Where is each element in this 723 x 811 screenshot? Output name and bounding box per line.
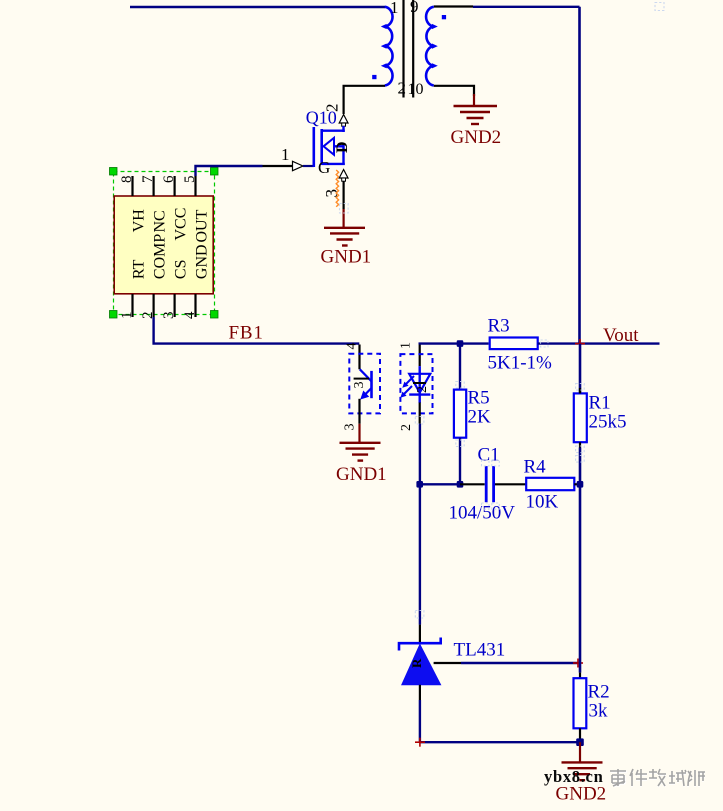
transformer T1 core [404,0,414,98]
junction dot R4 rail [577,481,584,488]
IC selection handle top-right [211,168,219,176]
watermark ybx8.cn [544,767,603,786]
transformer pin number 10 [408,81,424,98]
svg-text:R5: R5 [468,388,490,409]
junction dot bottom rail [576,738,584,746]
wire R3 to rail [538,342,579,344]
resistor R4 designator [524,457,547,478]
Q10 pin number 2 [323,104,342,113]
svg-text:G: G [318,158,330,177]
watermark chinese characters [611,770,705,787]
wire top primary rail [130,6,385,8]
capacitor C1 [486,466,493,502]
IC pin name VH [131,209,148,233]
svg-text:3: 3 [161,312,177,320]
ground GND2 bottom symbol [562,762,603,780]
transformer pin number 2 [398,79,407,98]
svg-text:9: 9 [410,0,419,16]
resistor R3 value 5K1-1% [488,353,553,374]
transistor Q10 designator [306,108,337,128]
IC selection handle top-left [110,168,118,176]
IC pin 5 line [194,176,196,196]
IC pin name OUT [194,209,211,242]
svg-text:VCC: VCC [173,208,190,241]
optocoupler U3A pin number 4 [345,343,360,350]
Q10 pin number 3 [322,189,341,198]
svg-text:OUT: OUT [194,209,211,242]
optocoupler U3A pin 4 line [358,345,360,370]
svg-text:R4: R4 [524,457,547,478]
wire bottom return [420,741,580,743]
wire TL431 reference to rail [434,662,579,664]
IC pin number 3 [161,312,177,320]
capacitor C1 designator [478,445,500,466]
optocoupler U3B pin 1 line [419,345,421,367]
svg-text:2: 2 [323,104,342,113]
wire primary bottom to Q10 drain [344,86,385,114]
wire secondary top to right rail [434,5,580,8]
net label FB1 [229,323,264,344]
IC pin number 8 [119,176,135,184]
svg-text:2: 2 [415,386,430,393]
IC pin number 7 [140,175,156,183]
optocoupler U3B light arrow 1 [402,376,414,388]
IC pin number 1 [119,312,135,320]
wire LED pin2 down to TL431 [419,424,421,644]
transistor Q10 body [314,126,345,167]
wire Q10 source to GND1 [343,181,345,227]
optocoupler U3B inner pin stub and number [413,383,430,393]
optocoupler U3A pin number 3 [343,424,358,431]
junction dot R5 bottom [457,481,464,488]
optocoupler U3B pin number 1 [399,342,414,349]
svg-text:GND: GND [194,244,211,279]
svg-text:TL431: TL431 [454,640,506,661]
optocoupler U3A pin 3 line [358,399,360,424]
diode TL431 cathode bar [399,638,441,651]
svg-text:4: 4 [182,311,198,319]
IC pin name GND [194,244,211,279]
optocoupler U3B pin number 2 [399,424,414,431]
junction dot LED column at comp wire [416,481,423,488]
IC pin 1 line [131,294,133,317]
resistor R1 value 25k5 [589,412,627,433]
Q10 drain pin arrow [339,115,348,127]
wire C1 to R4 [495,483,526,485]
wire opto emitter to GND1 [358,424,360,442]
net label 1 on gate wire [281,145,290,164]
optocoupler U3B dashed box [400,354,432,413]
svg-text:D: D [334,141,351,153]
svg-text:R2: R2 [588,682,610,703]
IC pin name CS [173,260,190,280]
resistor R2 designator [588,682,610,703]
svg-text:5K1-1%: 5K1-1% [488,353,553,374]
Q10 pin name D [334,141,351,153]
wire junction down to R5 [459,344,461,390]
svg-text:5: 5 [182,176,198,184]
wire rail Vout to R1 top [579,344,582,394]
wire R2 bottom to junction [579,728,581,742]
IC pin number 6 [161,175,177,183]
wire R5 junction to C1 [460,483,485,485]
svg-text:10K: 10K [526,492,559,513]
IC U1 body [114,196,213,294]
transformer T1 secondary winding [426,7,438,86]
ERC red cross at Vout junction [575,339,585,348]
Q10 pin name G [318,158,330,177]
svg-text:104/50V: 104/50V [449,503,516,524]
svg-text:GND1: GND1 [336,464,387,485]
wire rail R4 junction down to R2 [579,484,582,678]
svg-text:R: R [409,658,424,668]
wire IC pin5 to gate [196,166,293,176]
svg-text:3: 3 [352,382,367,389]
optocoupler U3B light arrow 2 [400,386,412,398]
transformer T1 primary polarity dot [372,75,376,79]
resistor R3 designator [488,316,510,337]
IC pin 6 line [174,176,176,196]
optocoupler U3B LED [409,366,430,403]
resistor R1 designator [589,393,611,414]
IC pin name COMP [152,234,169,279]
resistor R3 [490,338,538,350]
optocoupler U3B pin 2 line [419,403,421,424]
svg-text:6: 6 [161,175,177,183]
ground GND1 label under optocoupler [336,464,387,485]
IC pin name VCC [173,208,190,241]
diode TL431 triangle [402,645,441,685]
TL431 inner mark [409,658,424,668]
IC pin number 2 [140,312,156,320]
IC pin name RT [131,259,148,279]
wire LED pin1 to R3 junction [420,342,489,345]
transformer T1 primary winding [381,7,393,86]
Q10 source pin arrow [339,170,348,182]
wire TL431 anode down [419,685,421,742]
svg-text:CS: CS [173,260,190,280]
IC pin 8 line [131,176,133,196]
svg-text:GND2: GND2 [556,784,607,805]
svg-text:10: 10 [408,81,424,98]
IC pin name NC [152,210,169,232]
svg-text:8: 8 [119,176,135,184]
wire R5 bottom to junction [459,438,461,485]
resistor R1 [574,393,587,442]
wire FB1 from IC pin2 [154,317,360,344]
svg-text:FB1: FB1 [229,323,264,344]
net label Vout [603,325,639,346]
svg-text:R1: R1 [589,393,611,414]
svg-text:3k: 3k [589,701,609,722]
IC selection dashed box [114,172,215,315]
ground GND1 label under Q10 [321,247,372,268]
junction dot FB node [457,340,464,347]
ground GND2 top label [451,127,502,148]
resistor R5 [454,390,466,438]
wire Vout stub [581,342,660,344]
ground GND2 top symbol [454,94,498,124]
TL431 designator label [454,640,506,661]
wire R4 to rail junction [574,483,580,485]
svg-text:1: 1 [119,312,135,320]
svg-text:1: 1 [281,145,290,164]
transformer T1 secondary polarity dot [442,15,446,19]
svg-text:7: 7 [140,175,156,183]
ERC red cross at TL431 anode corner [415,738,425,747]
svg-text:2: 2 [398,79,407,98]
svg-text:GND2: GND2 [451,127,502,148]
wire secondary bottom to GND2 [434,86,474,96]
capacitor C1 value 104/50V [449,503,516,524]
IC pin 7 line [153,176,155,196]
resistor R4 [526,478,574,490]
svg-text:Vout: Vout [603,325,639,346]
svg-text:VH: VH [131,209,148,233]
transformer pin number 1 [390,0,399,17]
IC pin 2 line [153,294,155,317]
svg-text:4: 4 [345,343,360,350]
optocoupler U3A dashed box [349,354,380,414]
node right rail top corner [578,7,581,343]
svg-text:2: 2 [399,424,414,431]
ground GND2 bottom label [556,784,607,805]
svg-text:3: 3 [343,424,358,431]
ERC marker zigzag at Q10 source [336,170,338,207]
wire R1 bottom to R4 junction [579,442,581,484]
optocoupler U3A phototransistor [360,369,372,399]
ERC red cross at TL431 ref rail [573,659,583,668]
svg-text:1: 1 [390,0,399,17]
wire LED column to R5 junction [420,483,460,485]
resistor R5 designator [468,388,490,409]
IC pin 3 line [174,294,176,317]
svg-text:25k5: 25k5 [589,412,627,433]
resistor R5 value 2K [468,407,492,428]
transformer pin number 9 [410,0,419,16]
resistor R4 value 10K [526,492,559,513]
IC pin number 5 [182,176,198,184]
faint grid markers at pin ends [340,3,665,619]
IC pin number 4 [182,311,198,319]
svg-text:2K: 2K [468,407,492,428]
gate wire arrow [293,161,304,170]
svg-text:R3: R3 [488,316,510,337]
wire gate arrow to Q10 [303,165,314,167]
IC pin 4 line [194,294,196,317]
resistor R2 value 3k [589,701,609,722]
svg-text:1: 1 [399,342,414,349]
svg-text:COMP: COMP [152,234,169,279]
IC selection handle bottom-right [211,311,219,319]
wire junction to GND2 [579,742,581,762]
svg-text:ybx8.cn: ybx8.cn [544,767,603,786]
svg-text:NC: NC [152,210,169,232]
resistor R2 [574,678,587,728]
svg-text:GND1: GND1 [321,247,372,268]
ground GND1 under optocoupler [340,443,381,461]
svg-text:RT: RT [131,259,148,279]
ground GND1 under Q10 [324,228,365,246]
IC selection handle bottom-left [110,311,118,319]
optocoupler U3A base pin stub and number [352,379,369,389]
